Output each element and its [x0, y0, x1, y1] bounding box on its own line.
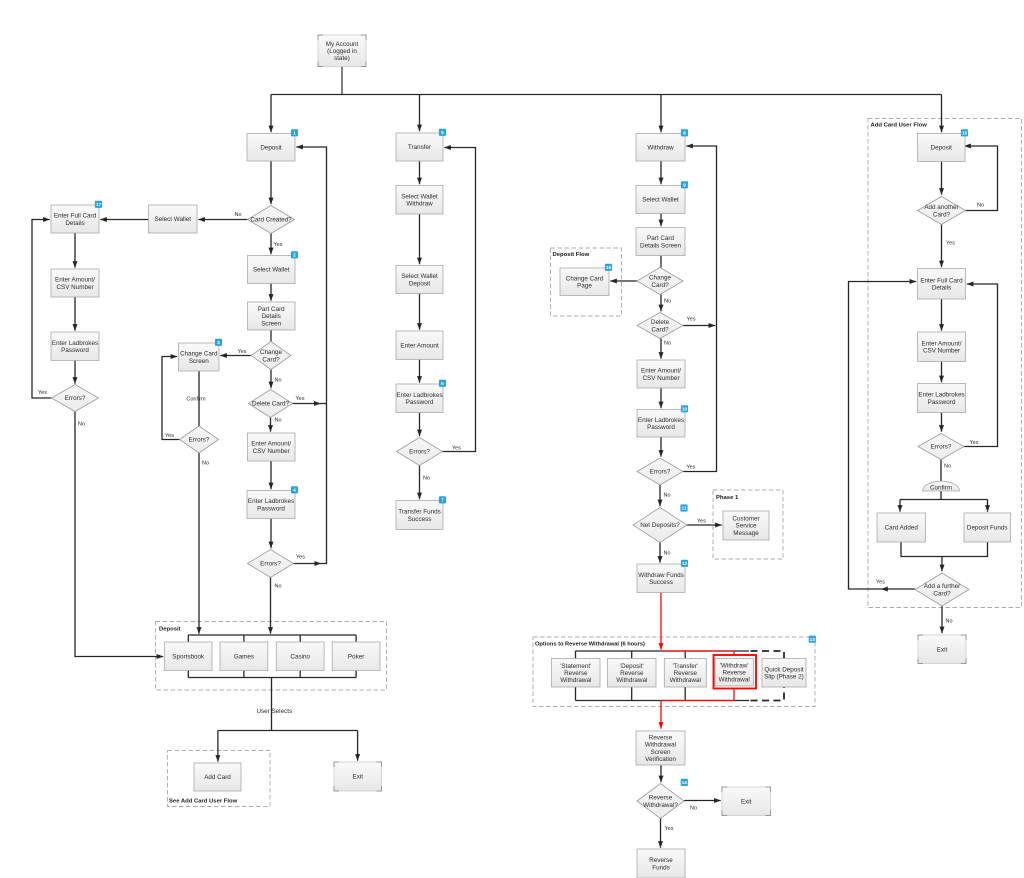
box Games — [220, 642, 268, 671]
wire stub Casino bottom — [299, 671, 301, 678]
svg-text:No: No — [275, 584, 282, 590]
wire stub DepositRW top — [631, 651, 633, 659]
svg-text:Reverse: Reverse — [649, 795, 673, 802]
box Casino — [276, 642, 324, 671]
box Withdraw Funds Success — [637, 564, 685, 593]
container Options to Reverse Withdrawal — [533, 637, 815, 707]
svg-text:See Add Card User Flow: See Add Card User Flow — [169, 799, 238, 805]
svg-text:Yes: Yes — [876, 580, 885, 586]
svg-text:'Withdraw': 'Withdraw' — [720, 662, 749, 669]
svg-text:Yes: Yes — [665, 826, 674, 832]
svg-text:5: 5 — [441, 130, 444, 136]
wire Deposit to Card Created — [270, 161, 272, 204]
svg-text:Password: Password — [647, 424, 675, 431]
wire Net Deposits No to Withdraw Funds Success — [659, 543, 661, 563]
svg-text:No: No — [664, 341, 671, 347]
wire Enter Amount to Enter Ladbrokes — [270, 461, 272, 489]
svg-text:16: 16 — [606, 265, 612, 271]
wire trunk to Deposit addcard — [941, 95, 943, 133]
svg-text:Password: Password — [406, 399, 434, 406]
svg-text:3: 3 — [217, 340, 220, 346]
svg-text:No: No — [944, 464, 951, 470]
decision Add another Card? — [918, 197, 966, 225]
wire Errors T No to Transfer Funds Success — [419, 466, 421, 500]
wire Reverse Yes to Reverse Funds — [660, 819, 662, 848]
wire Enter Amount F to Enter Ladbrokes F — [941, 362, 943, 383]
wire Enter Ladbrokes to Errors — [270, 519, 272, 549]
badge 16 (Change Card Page) — [605, 264, 612, 271]
box Select Wallet Deposit — [396, 266, 443, 294]
svg-text:'Deposit': 'Deposit' — [620, 663, 644, 670]
wire confirm split line — [900, 499, 988, 501]
wire Withdraw to Select Wallet E — [660, 161, 662, 184]
svg-text:Deposit: Deposit — [159, 627, 181, 633]
svg-text:Page: Page — [577, 283, 592, 290]
wire split to Deposit Funds — [987, 500, 989, 512]
badge 1 (Deposit) — [291, 129, 298, 136]
wire SWW to Select Wallet Deposit — [419, 214, 421, 264]
svg-text:'Transfer': 'Transfer' — [672, 663, 698, 670]
wire Change Card Screen Confirm line — [198, 371, 200, 426]
svg-text:Reverse: Reverse — [649, 734, 673, 741]
badge 13 (Options container) — [809, 636, 816, 643]
wire Delete Card Yes junction tail — [321, 403, 327, 405]
svg-text:Yes: Yes — [452, 446, 461, 452]
svg-text:Enter Amount/: Enter Amount/ — [251, 441, 291, 448]
box Enter Ladbrokes F — [918, 384, 966, 413]
container Deposit (sportsbook group) — [156, 622, 387, 691]
svg-text:Enter Ladbrokes: Enter Ladbrokes — [248, 498, 294, 505]
wire Enter Full Card F to Enter Amount F — [941, 299, 943, 331]
wire red overlay bus top — [661, 650, 734, 652]
svg-text:Deposit: Deposit — [260, 145, 282, 152]
wire Change Card Yes to Change Card Screen — [220, 355, 251, 357]
svg-text:Withdraw: Withdraw — [406, 201, 433, 208]
svg-text:Card?: Card? — [933, 211, 951, 218]
box Withdraw Reverse Withdrawal — [715, 659, 754, 687]
svg-text:No: No — [664, 299, 671, 305]
svg-text:Card?: Card? — [933, 590, 951, 597]
svg-text:Details: Details — [262, 313, 281, 320]
svg-text:CSV Number: CSV Number — [923, 348, 960, 355]
box Deposit F — [918, 134, 966, 162]
svg-text:Add Card User Flow: Add Card User Flow — [871, 123, 928, 129]
wire Errors2 Yes loop to Change Card Screen — [162, 357, 180, 440]
badge 5 (Transfer) — [439, 129, 446, 136]
svg-text:Customer: Customer — [732, 516, 759, 523]
wire Select Wallet to Enter Full Card Details — [100, 219, 148, 221]
svg-text:Select Wallet: Select Wallet — [155, 216, 192, 223]
red highlight frame Withdraw Reverse Withdrawal — [714, 655, 757, 689]
svg-text:Success: Success — [408, 516, 432, 523]
decision Change Card? E — [637, 268, 683, 295]
wire user selects line — [271, 678, 273, 731]
svg-text:Withdrawal: Withdrawal — [616, 677, 647, 684]
svg-text:Select Wallet: Select Wallet — [253, 267, 290, 274]
svg-text:10: 10 — [682, 407, 688, 413]
wire Transfer to Select Wallet Withdraw — [419, 161, 421, 184]
svg-text:Funds: Funds — [652, 864, 670, 871]
svg-text:Deposit Flow: Deposit Flow — [553, 252, 590, 258]
wire trunk horizontal — [271, 94, 942, 96]
svg-text:Enter Full Card: Enter Full Card — [54, 213, 97, 220]
box Add Card — [194, 763, 241, 791]
wire Add further No to Exit F — [941, 606, 943, 633]
svg-text:Card Created?: Card Created? — [250, 217, 292, 224]
box Enter Ladbrokes A — [51, 332, 99, 361]
svg-text:Reverse: Reverse — [674, 670, 698, 677]
wire trunk to Deposit — [270, 95, 272, 133]
svg-text:Transfer Funds: Transfer Funds — [398, 509, 440, 516]
wire Errors A No to Sportsbook — [75, 412, 163, 657]
svg-text:Screen: Screen — [189, 358, 209, 365]
svg-text:Errors?: Errors? — [65, 395, 86, 402]
wire stub Sportsbook top — [187, 635, 189, 642]
wire red stub Withdraw RW bottom — [733, 689, 735, 701]
wire options bus top — [576, 650, 750, 652]
svg-text:Slip (Phase 2): Slip (Phase 2) — [764, 674, 804, 681]
badge 14 (Reverse Withdrawal?) — [681, 779, 688, 786]
svg-text:Change Card: Change Card — [180, 351, 218, 358]
wire trunk to Withdraw — [660, 95, 662, 133]
box Enter Full Card Details A — [51, 205, 99, 233]
box Poker — [332, 642, 380, 671]
svg-text:Part Card: Part Card — [258, 306, 285, 313]
box Card Added — [877, 513, 926, 542]
wire Errors T Yes loop to Transfer — [443, 148, 476, 452]
svg-text:Yes: Yes — [296, 396, 305, 402]
box Part Card Details Screen E — [636, 228, 685, 256]
svg-text:Withdrawal: Withdrawal — [719, 677, 750, 684]
box Transfer Reverse Withdrawal — [664, 659, 706, 688]
svg-text:Add another: Add another — [924, 204, 958, 211]
badge 15 (Deposit F) — [961, 129, 968, 136]
wire My Account to trunk — [341, 67, 343, 95]
wire Change Card No to Delete Card — [270, 370, 272, 389]
svg-text:No: No — [423, 476, 430, 482]
wire red overlay bus bottom — [661, 700, 734, 702]
svg-text:Screen: Screen — [651, 749, 671, 756]
svg-text:14: 14 — [682, 780, 688, 786]
decision Card Created? — [248, 206, 295, 234]
svg-text:Withdrawal: Withdrawal — [645, 742, 676, 749]
wire Errors E Yes loop to Withdraw — [683, 146, 717, 472]
svg-text:Yes: Yes — [38, 390, 47, 396]
wire Add another No loop — [964, 146, 997, 211]
badge 8 (Withdraw) — [681, 129, 688, 136]
svg-text:2: 2 — [293, 253, 296, 259]
wire stub Statement bottom — [575, 687, 577, 701]
svg-text:Errors?: Errors? — [409, 449, 430, 456]
svg-text:Exit: Exit — [353, 774, 364, 781]
svg-text:state): state) — [334, 55, 350, 62]
svg-text:Message: Message — [733, 530, 759, 537]
wire Enter Amount A to Enter Ladbrokes A — [74, 297, 76, 331]
svg-text:Card Added: Card Added — [885, 525, 919, 532]
wire merge to Add a further Card — [941, 557, 943, 572]
badge 3 (Change Card Screen) — [215, 339, 222, 346]
box Exit F — [918, 635, 966, 664]
box Quick Deposit Slip — [762, 659, 806, 688]
svg-text:Success: Success — [649, 579, 673, 586]
svg-text:Delete: Delete — [651, 319, 670, 326]
wire Delete Card Yes to deposit loop — [293, 403, 321, 405]
container Add Card User Flow — [868, 119, 1022, 608]
box Select Wallet 2 — [248, 256, 296, 284]
wire stub Casino top — [299, 635, 301, 642]
svg-text:Card?: Card? — [262, 356, 280, 363]
wire Errors Yes loop to Deposit — [296, 147, 326, 564]
wire stub TransferRW bottom — [684, 687, 686, 701]
svg-text:CSV Number: CSV Number — [253, 448, 290, 455]
svg-text:Select Wallet: Select Wallet — [642, 197, 679, 204]
svg-text:Yes: Yes — [238, 349, 247, 355]
svg-text:Enter Ladbrokes: Enter Ladbrokes — [918, 392, 964, 399]
svg-text:No: No — [78, 422, 85, 428]
wire Enter Ladbrokes A to Errors A — [74, 361, 76, 384]
svg-text:4: 4 — [293, 488, 296, 494]
decision Delete Card? E — [637, 313, 683, 339]
wire Errors No to deposit bus — [270, 578, 272, 634]
svg-text:Service: Service — [736, 523, 757, 530]
wire Select Wallet 2 to Part Card Details — [270, 284, 272, 301]
svg-text:Reverse: Reverse — [620, 670, 644, 677]
arrowhead Add further Yes mid arrow — [881, 587, 888, 592]
svg-text:Details Screen: Details Screen — [640, 242, 681, 249]
svg-text:Withdrawal?: Withdrawal? — [643, 802, 678, 809]
box Change Card Screen — [179, 343, 220, 371]
wire stub DepositRW bottom — [631, 687, 633, 701]
wire SWD to Enter Amount — [419, 294, 421, 330]
decision Errors? E — [637, 458, 683, 485]
wire Change Card E No to Delete Card E — [660, 295, 662, 312]
svg-text:No: No — [235, 212, 242, 218]
box Part Card Details Screen C — [248, 302, 296, 330]
svg-text:Exit: Exit — [937, 647, 948, 654]
svg-text:Net Deposits?: Net Deposits? — [640, 522, 680, 529]
svg-text:Delete Card?: Delete Card? — [252, 401, 290, 408]
decision Errors? C — [248, 550, 294, 578]
decision Add a further Card? — [915, 573, 969, 606]
wire stub Poker top — [355, 635, 357, 642]
container Phase 1 — [713, 490, 783, 559]
box Withdraw — [636, 134, 685, 162]
box Deposit Reverse Withdrawal — [608, 659, 657, 688]
wire Card Added merge — [901, 542, 988, 557]
svg-text:Change Card: Change Card — [566, 275, 604, 282]
box Change Card Page — [560, 268, 609, 296]
svg-text:Password: Password — [61, 347, 89, 354]
wire Delete Card No to Enter Amount — [270, 418, 272, 432]
svg-text:Enter Amount/: Enter Amount/ — [641, 368, 681, 375]
badge 11 (Net Deposits?) — [680, 504, 687, 511]
wire Net Deposits Yes to Customer Service — [687, 524, 722, 526]
box Select Wallet B — [149, 205, 198, 233]
svg-text:Withdraw: Withdraw — [647, 145, 674, 152]
decision Errors? A — [52, 385, 99, 412]
badge 12 (Withdraw Funds Success) — [681, 560, 688, 567]
svg-text:Deposit: Deposit — [931, 145, 953, 152]
wire Add another Yes to Enter Full Card F — [941, 225, 943, 268]
svg-text:Withdrawal: Withdrawal — [670, 677, 701, 684]
wire Delete Card E No to Enter Amount E — [660, 339, 662, 359]
svg-text:7: 7 — [441, 498, 444, 504]
svg-text:Password: Password — [257, 505, 285, 512]
wire split to Exit C — [357, 731, 359, 761]
wire Errors F No to Confirm — [940, 459, 942, 482]
svg-text:Enter Full Card: Enter Full Card — [920, 277, 963, 284]
svg-text:Exit: Exit — [741, 799, 752, 806]
box Transfer — [396, 133, 443, 161]
box Enter Amount CSV F — [918, 332, 966, 362]
svg-text:17: 17 — [96, 202, 102, 208]
svg-text:Password: Password — [928, 399, 956, 406]
svg-text:No: No — [664, 551, 671, 557]
box Reverse Funds — [637, 849, 685, 878]
container Deposit Flow — [551, 248, 622, 316]
decision Errors? F — [918, 434, 964, 460]
svg-text:CSV Number: CSV Number — [642, 375, 679, 382]
svg-text:(Logged in: (Logged in — [327, 48, 357, 55]
wire Reverse No to Exit — [684, 800, 721, 802]
wire Card Created Yes to Select Wallet 2 — [270, 234, 272, 255]
box Sportsbook — [165, 642, 213, 671]
svg-text:6: 6 — [441, 381, 444, 387]
wire stub Sportsbook bottom — [187, 671, 189, 678]
svg-text:No: No — [690, 806, 697, 812]
box My Account — [318, 35, 366, 67]
wire Errors2 No to deposit bus — [198, 453, 200, 634]
svg-text:Reverse: Reverse — [722, 670, 746, 677]
wire Enter Amount E to Enter Ladbrokes E — [660, 388, 662, 408]
svg-text:1: 1 — [293, 131, 296, 137]
svg-text:Card?: Card? — [651, 282, 669, 289]
svg-text:Reverse: Reverse — [564, 670, 588, 677]
svg-text:Withdrawal: Withdrawal — [560, 677, 591, 684]
svg-text:Enter Amount/: Enter Amount/ — [55, 277, 95, 284]
wire split to Add Card — [217, 731, 219, 762]
svg-text:9: 9 — [683, 183, 686, 189]
svg-text:Change: Change — [260, 349, 283, 356]
svg-text:Yes: Yes — [296, 555, 305, 561]
decision Errors? T — [397, 438, 443, 466]
svg-text:Card?: Card? — [651, 326, 669, 333]
wire deposit bus top — [188, 634, 356, 636]
decision Net Deposits? — [633, 508, 687, 543]
svg-text:User Selects: User Selects — [256, 708, 292, 715]
svg-text:Sportsbook: Sportsbook — [172, 654, 205, 661]
svg-text:No: No — [275, 378, 282, 384]
wire stub TransferRW top — [684, 651, 686, 659]
svg-text:Poker: Poker — [348, 654, 364, 661]
badge 4 (Enter Ladbrokes C) — [291, 486, 298, 493]
badge 10 (Enter Ladbrokes E) — [681, 405, 688, 412]
svg-text:Options to Reverse Withdrawal: Options to Reverse Withdrawal (6 hours) — [535, 642, 645, 648]
svg-text:No: No — [275, 418, 282, 424]
wire Part Card E to Change Card E — [660, 256, 662, 268]
svg-text:Enter Ladbrokes: Enter Ladbrokes — [396, 392, 442, 399]
svg-text:Reverse: Reverse — [649, 857, 673, 864]
wire Enter Ladbrokes F to Errors F — [941, 413, 943, 432]
svg-text:My Account: My Account — [326, 41, 359, 48]
svg-text:Quick Deposit: Quick Deposit — [764, 666, 803, 673]
svg-text:Details: Details — [65, 220, 84, 227]
svg-text:8: 8 — [683, 131, 686, 137]
decision Delete Card? C — [249, 390, 293, 418]
box Enter Amount T — [396, 331, 443, 360]
wire split to Card Added — [899, 500, 901, 512]
box Exit C — [334, 762, 382, 791]
wire deposit bus bottom — [188, 677, 356, 679]
badge 17 (Enter Full Card Details A) — [95, 201, 102, 208]
wire stub Games top — [243, 635, 245, 642]
svg-text:Add Card: Add Card — [204, 774, 231, 781]
svg-text:Phase 1: Phase 1 — [716, 495, 739, 501]
box Enter Ladbrokes E — [637, 410, 685, 438]
wire Enter Ladbrokes T to Errors T — [419, 413, 421, 437]
wire red drop to Reverse Withdrawal box — [660, 701, 662, 729]
wire options bus bottom — [576, 700, 750, 702]
svg-text:Part Card: Part Card — [647, 235, 674, 242]
svg-text:Errors?: Errors? — [189, 437, 210, 444]
svg-text:Enter Ladbrokes: Enter Ladbrokes — [638, 417, 684, 424]
svg-text:Select Wallet: Select Wallet — [401, 193, 438, 200]
wire Change Card E Yes to Change Card Page — [610, 280, 637, 282]
wire red Withdraw Funds Success to options bus — [660, 593, 662, 650]
box Transfer Funds Success — [396, 501, 443, 530]
wire red stub Withdraw RW top — [733, 651, 735, 656]
svg-text:Confirm: Confirm — [930, 485, 952, 492]
svg-text:Yes: Yes — [946, 241, 955, 247]
svg-text:Yes: Yes — [970, 440, 979, 446]
svg-text:No: No — [202, 461, 209, 467]
svg-text:13: 13 — [810, 637, 816, 643]
svg-text:Change: Change — [649, 275, 672, 282]
svg-text:Deposit Funds: Deposit Funds — [967, 525, 1008, 532]
badge 2 (Select Wallet 2) — [291, 251, 298, 258]
wire Errors E No to Net Deposits — [659, 485, 661, 506]
svg-text:Errors?: Errors? — [260, 561, 281, 568]
box Deposit Funds — [964, 513, 1011, 542]
wire Part Card Details to Change Card — [270, 330, 272, 342]
svg-text:12: 12 — [682, 561, 688, 567]
box Select Wallet E — [636, 186, 685, 214]
svg-text:Yes: Yes — [274, 242, 283, 248]
terminator Confirm arc — [923, 481, 960, 492]
svg-text:Yes: Yes — [687, 465, 696, 471]
svg-text:Screen: Screen — [261, 320, 281, 327]
wire Enter Full Card to Enter Amount A — [74, 233, 76, 268]
svg-text:Deposit: Deposit — [409, 280, 431, 287]
container See Add Card User Flow — [168, 751, 271, 807]
svg-text:'Statement': 'Statement' — [560, 663, 591, 670]
svg-text:No: No — [664, 493, 671, 499]
badge 9 (Select Wallet E) — [681, 181, 688, 188]
wire dashed bus bottom quick — [751, 687, 785, 701]
wire Enter Amount to Enter Ladbrokes T — [419, 360, 421, 383]
svg-text:Yes: Yes — [165, 433, 174, 439]
svg-text:Verification: Verification — [645, 756, 676, 763]
svg-text:Yes: Yes — [687, 317, 696, 323]
wire Errors A Yes loop — [32, 220, 52, 399]
svg-text:Details: Details — [932, 285, 951, 292]
svg-text:Errors?: Errors? — [650, 469, 671, 476]
box Statement Reverse Withdrawal — [552, 659, 601, 688]
box Exit E — [722, 787, 771, 816]
svg-text:Add a further: Add a further — [924, 583, 960, 590]
wire Confirm to split — [940, 491, 942, 500]
decision Errors? B — [180, 426, 219, 453]
